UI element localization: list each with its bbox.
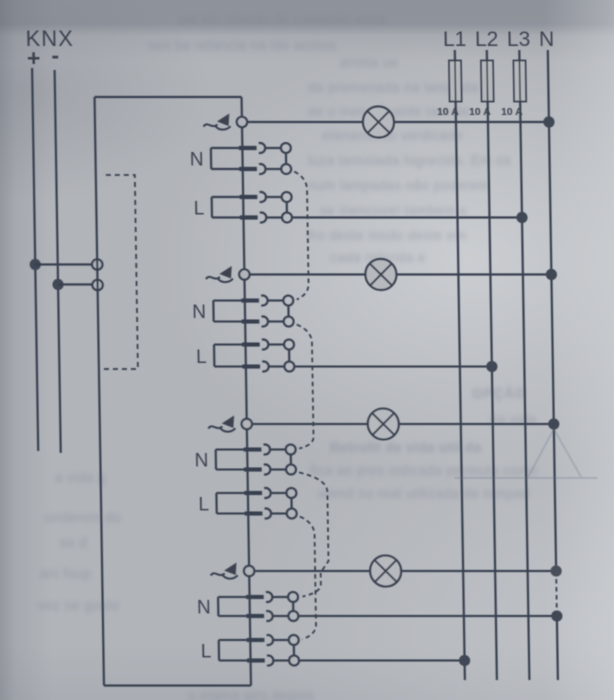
junction channel2 / L2	[486, 361, 497, 372]
fuse F2 10A on L2	[481, 61, 494, 102]
bridge N2a-N2b	[287, 305, 289, 316]
svg-text:L1: L1	[443, 28, 467, 51]
actuator device outline top edge	[95, 96, 242, 98]
svg-text:N: N	[197, 598, 211, 619]
bridge N1a-N1b	[285, 153, 287, 164]
N terminal block channel 3	[216, 450, 245, 470]
svg-text:L: L	[196, 347, 207, 368]
plug contact L3b	[245, 509, 297, 519]
relay actuator symbol channel 4	[211, 563, 238, 579]
wire channel2 L to phase L2	[294, 365, 492, 367]
switch contact terminal channel 2	[239, 269, 250, 279]
junction channel1 / L3	[516, 212, 527, 223]
plug contact L1b	[240, 213, 292, 223]
wire L2 vertical	[487, 50, 497, 680]
wire lamp row 4 (switch to N)	[254, 570, 556, 572]
dashed link ch2 N to ch3 N	[297, 325, 314, 449]
L terminal block channel 3	[216, 493, 245, 514]
switch contact terminal channel 4	[244, 566, 255, 576]
plug contact L3a	[244, 488, 296, 498]
plug contact N1a	[239, 143, 291, 153]
bus coupler dashed box	[99, 175, 138, 369]
lamp E3	[368, 409, 399, 440]
wire channel4 N to neutral bus	[298, 615, 557, 617]
junction on KNX +	[30, 259, 41, 270]
plug contact N3a	[244, 445, 296, 455]
relay actuator symbol channel 2	[206, 266, 233, 282]
relay actuator symbol channel 3	[208, 416, 235, 432]
wire - to actuator terminal	[58, 283, 93, 285]
N terminal block channel 4	[218, 597, 247, 616]
plug contact N3b	[244, 465, 296, 475]
svg-text:L2: L2	[475, 28, 499, 51]
svg-text:10 A: 10 A	[501, 106, 523, 118]
KNX terminal circle +	[92, 259, 103, 269]
bridge L1a-L1b	[286, 202, 288, 213]
wire N vertical dashed segment	[555, 571, 558, 616]
wire KNX + bus line	[32, 68, 38, 451]
plug contact N2a	[241, 296, 293, 306]
wire KNX - bus line	[55, 70, 61, 453]
switch contact terminal channel 3	[242, 419, 253, 429]
KNX terminal circle -	[92, 280, 103, 290]
ghost warning triangle (show-through)	[454, 429, 598, 478]
lamp E4	[370, 556, 401, 587]
svg-text:-: -	[51, 42, 59, 68]
svg-text:10 A: 10 A	[469, 106, 491, 118]
actuator device outline left edge	[95, 97, 104, 686]
actuator device outline bottom edge	[104, 684, 251, 686]
wire channel4 L to phase L1	[299, 659, 465, 661]
switch contact terminal channel 1	[237, 117, 248, 127]
svg-text:L: L	[201, 642, 212, 663]
wire L3 vertical	[519, 50, 529, 680]
svg-text:L: L	[194, 199, 205, 220]
bridge N4a-N4b	[292, 602, 294, 611]
junction channel4 / N	[551, 610, 562, 621]
svg-text:10 A: 10 A	[437, 106, 459, 118]
wire lamp row 3 (switch to N)	[252, 423, 554, 425]
svg-text:N: N	[190, 150, 204, 171]
relay actuator symbol channel 1	[203, 114, 230, 130]
N terminal block channel 1	[211, 148, 240, 169]
plug contact L1a	[240, 192, 292, 202]
lamp E2	[365, 259, 396, 290]
wire channel1 L to phase L3	[292, 216, 522, 218]
actuator internal bus (vertical)	[242, 97, 251, 686]
wire lamp row 1 (switch to N)	[247, 121, 549, 123]
svg-text:+: +	[27, 45, 41, 71]
plug contact N2b	[242, 317, 294, 327]
bridge L2a-L2b	[288, 349, 290, 361]
plug contact N4a	[246, 592, 298, 602]
wire N vertical (solid below)	[557, 616, 558, 680]
L terminal block channel 1	[212, 197, 241, 218]
plug contact L4a	[247, 635, 299, 645]
junction lamp2 / N	[546, 269, 557, 280]
svg-text:L: L	[198, 495, 209, 516]
dashed link ch1 N to ch2 N	[294, 172, 309, 300]
svg-text:N: N	[194, 451, 208, 472]
junction lamp4 / N	[550, 565, 561, 576]
junction lamp3 / N	[548, 418, 559, 429]
svg-text:N: N	[192, 302, 206, 323]
N terminal block channel 2	[213, 301, 242, 322]
svg-text:L3: L3	[507, 28, 531, 51]
wire L1 vertical	[455, 50, 465, 680]
wire + to actuator terminal	[35, 263, 92, 265]
bridge L3a-L3b	[290, 498, 292, 509]
svg-text:N: N	[539, 28, 555, 51]
plug contact N4b	[246, 611, 298, 621]
L terminal block channel 2	[214, 345, 243, 367]
fuse F1 10A on L1	[449, 61, 462, 102]
junction on KNX -	[52, 279, 63, 290]
plug contact L2b	[242, 362, 294, 372]
dashed link ch3 L to ch4 L	[300, 517, 316, 640]
wire lamp row 2 (switch to N)	[249, 273, 551, 275]
plug contact N1b	[239, 164, 291, 174]
lamp E1	[363, 107, 394, 138]
L terminal block channel 4	[219, 640, 248, 661]
fuse F3 10A on L3	[513, 61, 526, 102]
junction channel4 / L1	[459, 655, 470, 666]
plug contact L4b	[247, 656, 299, 666]
plug contact L2a	[242, 340, 294, 350]
ghost show-through text (decorative, from page verso)	[178, 12, 386, 27]
wire N vertical (solid above lamp4 tap)	[548, 50, 556, 571]
bridge N3a-N3b	[290, 454, 292, 464]
bridge L4a-L4b	[293, 645, 295, 656]
junction lamp1 / N	[543, 116, 554, 127]
dashed link ch3 N to ch4 N	[299, 473, 329, 597]
